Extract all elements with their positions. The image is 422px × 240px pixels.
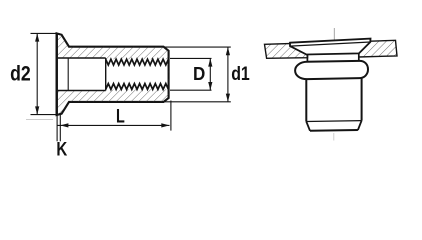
bore end shoulder [105,58,107,91]
bottom chamfer right [358,121,362,130]
internal thread, bottom zigzag [106,84,169,90]
dimension d2 arrow up [35,33,39,41]
centerline below body [333,133,335,141]
plate left section (hatched) [265,43,308,58]
dimension d2 top tick [31,32,58,34]
dimension d1 top extension [165,46,231,48]
dimension L line [57,124,169,126]
bore bottom line [58,90,106,92]
dimension L right extension line [170,101,172,131]
head top face sliver line [290,42,370,46]
dimension d2 line [36,33,38,114]
dimension K left extension line [56,115,58,142]
dimension K faint leader [26,119,53,121]
dimension D top extension [170,57,212,59]
bottom edge [310,129,358,132]
dimension d1 bottom extension [164,101,231,103]
neck right edge [358,53,360,61]
rivet nut outer profile (section outline) [57,33,169,115]
dimension D bottom extension [170,89,212,91]
dimension d1 arrow down [226,94,230,102]
svg-text:d2: d2 [10,63,31,86]
bore top line [58,57,106,59]
body cylinder right side [361,78,363,121]
svg-text:L: L [116,107,125,128]
dimension d1 line [227,47,229,102]
bulge (deformed collar, stadium shape) [295,61,368,79]
dimension d1 arrow up [226,47,230,55]
dimension D line [209,58,211,90]
neck left edge [306,55,308,63]
dimension D arrow down [208,82,212,90]
dimension d2 arrow down [35,106,39,114]
dimension L right arrow [161,123,169,127]
svg-text:d1: d1 [231,64,250,85]
head (flat countersunk cap) [290,39,371,55]
internal thread, top zigzag [106,59,169,65]
body cylinder left side [305,79,307,122]
bottom chamfer left [306,122,310,131]
dimension d2 bottom tick [31,114,58,116]
dimension K right extension line [59,113,61,141]
flange face (thick left edge) [56,33,58,115]
dimension D arrow up [208,58,212,66]
svg-text:K: K [56,139,67,160]
section hatching (walls of the nut) [57,33,169,115]
centerline above head [333,28,335,41]
svg-text:D: D [193,63,205,84]
chamfer ring line [306,120,361,123]
plate right section (hatched) [359,40,397,57]
dimension L left arrow [60,123,68,127]
head cone inner edge [67,58,69,91]
